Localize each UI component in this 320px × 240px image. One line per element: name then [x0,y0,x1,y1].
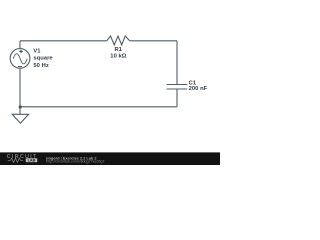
ground [12,114,28,123]
svg-text:square: square [33,55,53,61]
wire [19,68,21,107]
svg-text:V1: V1 [33,49,41,55]
wire [176,89,178,107]
resistor R1 [107,36,130,45]
wire [130,40,177,42]
footer bar [0,152,220,165]
logo zigzag [8,158,23,162]
wire [20,106,177,108]
wire [19,107,21,115]
svg-text:200 nF: 200 nF [189,86,208,92]
svg-text:http://circuitlab.com/c8dqg77x: http://circuitlab.com/c8dqg77xe25g7 [46,160,104,164]
voltage source V1 [10,49,30,69]
wire [176,41,178,85]
svg-text:10 kΩ: 10 kΩ [110,54,126,60]
svg-text:R1: R1 [114,47,122,53]
logo LAB box [26,158,37,162]
svg-text:LAB: LAB [28,159,36,163]
node junction [19,106,22,109]
wire [20,40,107,42]
wire [19,41,21,49]
capacitor C1 [167,85,188,90]
svg-text:50 Hz: 50 Hz [33,63,48,69]
